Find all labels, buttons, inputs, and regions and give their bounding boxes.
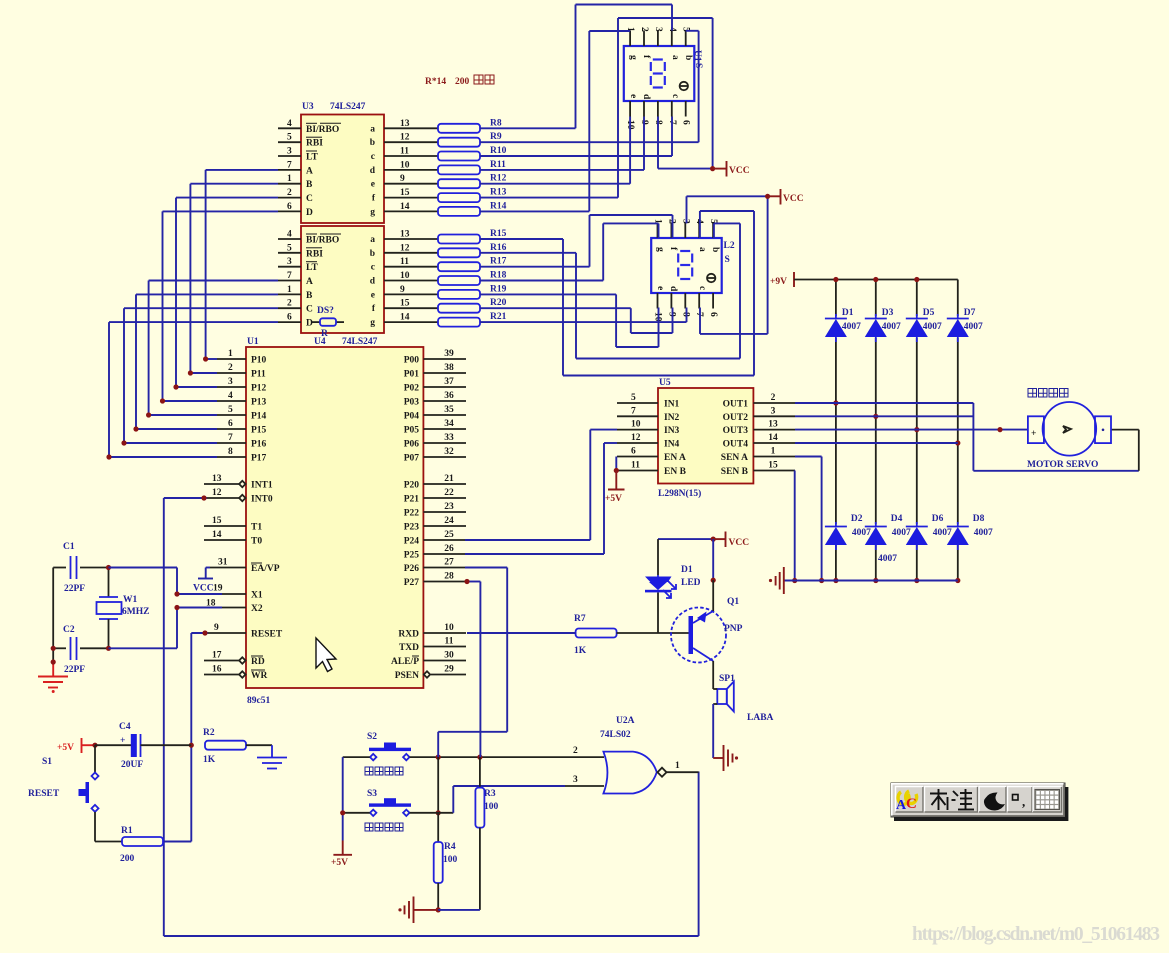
wire R11 to DS1 pin9 (480, 169, 644, 171)
svg-text:VCC: VCC (729, 166, 750, 176)
ground (speaker) (713, 757, 723, 759)
svg-text:10: 10 (400, 160, 410, 170)
U3 left pin A (7) (278, 169, 301, 171)
svg-text:c: c (371, 152, 375, 162)
U1 left pin WR (16) (204, 674, 239, 676)
DS2 top pin 2 (670, 223, 672, 239)
svg-text:10: 10 (631, 420, 641, 430)
svg-text:13: 13 (768, 420, 778, 430)
U1 right pin P24 (25) (423, 539, 466, 541)
svg-text:2: 2 (771, 393, 776, 403)
U4 left pin A (7) (278, 280, 301, 282)
U3 left pin C (2) (278, 197, 301, 199)
U4 left pin B (1) (278, 293, 301, 295)
svg-text:12: 12 (631, 433, 641, 443)
wire motor return loop (972, 403, 974, 471)
svg-text:14: 14 (400, 313, 410, 323)
svg-text:S2: S2 (367, 732, 377, 742)
svg-text:c: c (670, 94, 680, 98)
svg-text:TXD: TXD (399, 643, 419, 653)
wire VCC to LED top (658, 538, 713, 540)
svg-text:32: 32 (444, 447, 454, 457)
svg-text:IN4: IN4 (664, 440, 680, 450)
U3 right pin g (14) (384, 210, 438, 212)
svg-text:74LS247: 74LS247 (342, 337, 378, 347)
DS2 bottom pin 9 (670, 293, 672, 309)
diode D4 4007 (865, 526, 887, 528)
resistor R1 200 (95, 841, 122, 843)
svg-text:3: 3 (653, 27, 663, 32)
svg-text:29: 29 (444, 665, 454, 675)
svg-text:R19: R19 (490, 284, 507, 294)
svg-text:DS?: DS? (317, 306, 334, 316)
U1 left pin RESET (9) (208, 632, 246, 634)
diode D7 4007 (947, 318, 969, 320)
U5 right pin OUT3 (13) (753, 429, 795, 431)
U5 left pin IN3 (10) (617, 429, 658, 431)
svg-text:P25: P25 (404, 551, 420, 561)
svg-text:27: 27 (444, 558, 454, 568)
svg-text:5: 5 (631, 393, 636, 403)
svg-text:RESET: RESET (28, 789, 60, 799)
svg-text:e: e (628, 94, 638, 98)
svg-text:U1: U1 (692, 50, 702, 62)
svg-text:P01: P01 (404, 370, 420, 380)
svg-text:C: C (306, 194, 313, 204)
svg-text:Q1: Q1 (727, 597, 739, 607)
DS1 bottom pin 6 (685, 101, 687, 117)
svg-text:RESET: RESET (251, 630, 283, 640)
svg-text:13: 13 (400, 119, 410, 129)
svg-text:+5V: +5V (331, 858, 348, 868)
svg-text:16: 16 (212, 665, 222, 675)
svg-text:IN1: IN1 (664, 400, 680, 410)
svg-text:P26: P26 (404, 564, 420, 574)
DS1 top pin 4 (671, 31, 673, 47)
svg-text:22PF: 22PF (64, 665, 85, 675)
DS1 bottom pin 7 (671, 101, 673, 117)
svg-text:22: 22 (444, 488, 454, 498)
LED D1 (645, 577, 672, 591)
wire S2 to S3 column / R4 (437, 757, 439, 813)
wire DS1 pin8 to VCC rail (657, 117, 659, 169)
svg-text:2: 2 (639, 27, 649, 32)
svg-text:OUT4: OUT4 (723, 440, 749, 450)
svg-text:g: g (655, 247, 665, 252)
svg-text:11: 11 (631, 461, 640, 471)
svg-text:2: 2 (228, 363, 233, 373)
wire R15 to DS2 pin4 (480, 238, 563, 240)
U1 right pin ALE/P (30) (423, 660, 466, 662)
DS1 top pin 1 (629, 31, 631, 47)
wire R14 to DS1 pin1 (480, 210, 589, 212)
svg-text:P00: P00 (404, 356, 420, 366)
svg-text:C: C (906, 796, 917, 812)
svg-text:1K: 1K (203, 755, 216, 765)
svg-text:X1: X1 (251, 591, 263, 601)
wire +5V column to S2/S3 (343, 756, 370, 758)
svg-text:9: 9 (666, 312, 676, 317)
power +5V at U5 (615, 471, 617, 490)
diode D6 4007 (906, 526, 928, 528)
IME moon icon (984, 792, 1005, 810)
U1 left pin P11 (2) (217, 372, 246, 374)
svg-text:R21: R21 (490, 312, 507, 322)
wire R10 to DS1 pin7 (480, 155, 672, 157)
resistor R10 (438, 152, 480, 161)
U3 right pin d (10) (384, 169, 438, 171)
svg-text:15: 15 (212, 516, 222, 526)
svg-text:6: 6 (228, 419, 233, 429)
svg-text:C: C (306, 305, 313, 315)
svg-text:R20: R20 (490, 298, 507, 308)
svg-text:X2: X2 (251, 604, 263, 614)
capacitor C4 20UF (95, 744, 131, 746)
IME mode text (biao zhun) (930, 789, 974, 810)
svg-text:3: 3 (771, 406, 776, 416)
resistor R20 (438, 304, 480, 313)
wire R21 to DS2 pin8 (480, 321, 687, 323)
svg-text:11: 11 (445, 637, 454, 647)
crystal W1 6MHZ (108, 568, 110, 598)
svg-text:L298N(15): L298N(15) (658, 488, 701, 499)
svg-text:D: D (306, 208, 313, 218)
svg-text:34: 34 (444, 419, 454, 429)
IME punctuation icon (1013, 795, 1019, 801)
svg-text:1K: 1K (574, 646, 587, 656)
svg-text:9: 9 (400, 174, 405, 184)
svg-text:g: g (370, 207, 375, 217)
ground (R3/R4) (398, 908, 401, 911)
svg-text:SEN B: SEN B (721, 467, 749, 477)
svg-text:R2: R2 (203, 728, 215, 738)
svg-text:19: 19 (213, 584, 223, 594)
MCU U1 89c51 body (246, 347, 423, 688)
wire SEN B to ground rail (794, 470, 796, 472)
svg-text:P02: P02 (404, 384, 420, 394)
svg-text:7: 7 (287, 160, 292, 170)
U1 left pin INT0 (12) (207, 497, 239, 499)
svg-text:OUT3: OUT3 (723, 426, 749, 436)
IME keyboard icon (1035, 790, 1060, 810)
IME toolbar panel (891, 783, 1065, 817)
U1 left pin T0 (14) (204, 539, 246, 541)
svg-text:e: e (371, 290, 375, 300)
U5 right pin OUT4 (14) (753, 442, 795, 444)
svg-text:a: a (697, 247, 707, 252)
svg-text:8: 8 (228, 447, 233, 457)
DS2 top pin 3 (684, 223, 686, 239)
svg-text:1: 1 (287, 174, 292, 184)
svg-text:P21: P21 (404, 495, 420, 505)
svg-text:WR: WR (251, 671, 268, 681)
svg-text:R7: R7 (574, 614, 586, 624)
svg-text:VCC: VCC (783, 194, 804, 204)
svg-text:R15: R15 (490, 229, 507, 239)
svg-text:a: a (370, 235, 375, 245)
svg-text:OUT2: OUT2 (723, 413, 749, 423)
svg-text:100: 100 (443, 855, 458, 865)
power VCC (display1) (710, 166, 715, 171)
svg-text:D3: D3 (882, 308, 894, 318)
U1 right pin PSEN (29) (424, 671, 430, 677)
wire OUT2 (795, 415, 973, 417)
resistor R18 (438, 276, 480, 285)
resistor R17 (438, 262, 480, 271)
U1 right pin P22 (23) (423, 511, 466, 513)
svg-text:BI/RBO: BI/RBO (306, 125, 339, 135)
wire INT0 to bottom rail (NOR output net) (164, 497, 207, 499)
svg-text:b: b (370, 249, 375, 259)
svg-text:2: 2 (287, 188, 292, 198)
svg-text:4007: 4007 (923, 322, 942, 332)
svg-text:INT1: INT1 (251, 481, 273, 491)
svg-text:P03: P03 (404, 398, 420, 408)
U1 right pin P02 (37) (423, 386, 466, 388)
svg-text:U2A: U2A (616, 716, 635, 726)
svg-text:8: 8 (680, 312, 690, 317)
wire C1 row to X1 (109, 567, 178, 569)
svg-text:MOTOR SERVO: MOTOR SERVO (1027, 460, 1098, 470)
wire R1 right to reset node (164, 841, 191, 843)
IC U5 L298N body (658, 388, 753, 484)
svg-text:A: A (306, 277, 313, 287)
svg-text:g: g (628, 55, 638, 60)
U1 right pin P05 (34) (423, 428, 466, 430)
svg-text:L2: L2 (724, 241, 735, 251)
svg-text:LT: LT (306, 153, 318, 163)
svg-text:5: 5 (228, 405, 233, 415)
svg-text:,: , (1022, 794, 1025, 809)
U1 left pin P16 (7) (217, 442, 246, 444)
svg-text:4007: 4007 (842, 322, 861, 332)
svg-text:C4: C4 (119, 722, 131, 732)
svg-text:D2: D2 (851, 514, 863, 524)
svg-text:e: e (655, 286, 665, 290)
svg-text:5: 5 (287, 133, 292, 143)
svg-text:d: d (370, 166, 376, 176)
power +5V (S2/S3) (342, 841, 344, 855)
wire OUT4 (795, 442, 958, 444)
svg-text:36: 36 (444, 391, 454, 401)
svg-text:P27: P27 (404, 578, 420, 588)
wire U bus 8 to P17 (109, 321, 278, 323)
svg-text:25: 25 (444, 530, 454, 540)
svg-text:D5: D5 (923, 308, 935, 318)
U3 right pin b (12) (384, 141, 438, 143)
svg-text:1: 1 (675, 761, 680, 771)
transistor Q1 PNP (671, 608, 726, 663)
DS2 bottom pin 10 (657, 293, 659, 309)
svg-text:14: 14 (212, 530, 222, 540)
wire SEN A to ground rail (795, 456, 822, 458)
svg-text:S1: S1 (42, 757, 52, 767)
svg-text:P10: P10 (251, 356, 267, 366)
svg-text:15: 15 (400, 188, 410, 198)
wire RXD to R7 (467, 632, 576, 634)
wire R8 to DS1 pin4 (480, 127, 576, 129)
svg-text:R1: R1 (121, 826, 133, 836)
resistor R11 (438, 165, 480, 174)
wire diode column D5/D6 (916, 280, 918, 317)
svg-text:+: + (1031, 429, 1036, 439)
svg-text:15: 15 (768, 461, 778, 471)
svg-text:20UF: 20UF (121, 760, 143, 770)
wire U bus 4 to P13 (163, 210, 279, 212)
U3 right pin a (13) (384, 127, 438, 129)
svg-text:P13: P13 (251, 398, 267, 408)
svg-text:D1: D1 (842, 308, 854, 318)
svg-text:+5V: +5V (57, 743, 74, 753)
svg-text:13: 13 (212, 474, 222, 484)
svg-text:IN3: IN3 (664, 426, 680, 436)
U1 right pin P25 (26) (423, 553, 466, 555)
resistor R8 (438, 124, 480, 133)
svg-text:1: 1 (228, 349, 233, 359)
wire RESET to R2/C4 node (191, 632, 208, 634)
wire U bus 3 to P12 (176, 197, 278, 199)
svg-text:D6: D6 (932, 514, 944, 524)
svg-text:g: g (370, 318, 375, 328)
svg-text:D4: D4 (891, 514, 903, 524)
svg-text:17: 17 (212, 651, 222, 661)
svg-text:S: S (725, 255, 730, 265)
DS2 bottom pin 7 (698, 293, 700, 309)
svg-text:RD: RD (251, 657, 265, 667)
U1 right pin P26 (27) (423, 567, 466, 569)
U1 right pin P03 (36) (423, 400, 466, 402)
svg-text:12: 12 (400, 133, 410, 143)
U4 right pin e (9) (384, 293, 438, 295)
gate output wire (1) (667, 771, 699, 773)
U1 left pin P15 (6) (217, 428, 246, 430)
U5 left pin IN4 (12) (617, 442, 658, 444)
svg-text:T0: T0 (251, 537, 262, 547)
svg-text:R: R (321, 329, 328, 339)
svg-text:LABA: LABA (747, 713, 774, 723)
U1 left pin P14 (5) (217, 414, 246, 416)
svg-text:4007: 4007 (892, 528, 911, 538)
svg-text:LED: LED (681, 578, 701, 588)
U1 right pin P00 (39) (423, 358, 466, 360)
svg-text:b: b (683, 55, 693, 60)
svg-text:R9: R9 (490, 132, 502, 142)
U3 left pin D (6) (278, 210, 301, 212)
ground (diode rail) (784, 580, 958, 582)
U1 left pin P10 (1) (217, 358, 246, 360)
U3 left pin LT (3) (278, 155, 301, 157)
svg-text:R3: R3 (484, 789, 496, 799)
DS1 bottom pin 9 (643, 101, 645, 117)
U4 right pin a (13) (384, 238, 438, 240)
svg-text:+9V: +9V (770, 277, 787, 287)
svg-text:b: b (710, 247, 720, 252)
svg-text:3: 3 (287, 257, 292, 267)
svg-text:D: D (306, 319, 313, 329)
svg-text:RBI: RBI (306, 249, 323, 259)
svg-text:P11: P11 (251, 370, 266, 380)
IC U3 74LS247 body (301, 115, 384, 224)
svg-text:7: 7 (228, 433, 233, 443)
svg-text:EN A: EN A (664, 453, 686, 463)
svg-text:R17: R17 (490, 257, 507, 267)
svg-text:12: 12 (400, 243, 410, 253)
svg-text:R16: R16 (490, 243, 507, 253)
svg-text:a: a (370, 124, 375, 134)
svg-text:c: c (371, 263, 375, 273)
diode D5 4007 (906, 318, 928, 320)
U5 left pin EN B (11) (617, 470, 658, 472)
svg-text:6: 6 (708, 312, 718, 317)
U4 left pin LT (3) (278, 266, 301, 268)
U5 left pin IN1 (5) (617, 402, 658, 404)
U1 right pin P27 (28) (423, 581, 466, 583)
DS2 top pin 1 (657, 223, 659, 239)
svg-text:2: 2 (287, 299, 292, 309)
svg-text:P16: P16 (251, 440, 267, 450)
svg-text:200: 200 (120, 854, 135, 864)
wire P26 net (465, 567, 507, 569)
svg-text:T1: T1 (251, 523, 262, 533)
svg-text:3: 3 (680, 219, 690, 224)
motor terminal right (1095, 416, 1111, 443)
svg-text:4007: 4007 (974, 528, 993, 538)
U1 left pin P17 (8) (217, 456, 246, 458)
DS2 bottom pin 6 (712, 293, 714, 309)
U1 right pin P20 (21) (423, 483, 466, 485)
motor labels (1028, 389, 1037, 398)
resistor R21 (438, 318, 480, 327)
IC U4 74LS247 body (301, 226, 384, 333)
DS1 bottom pin 8 (657, 101, 659, 117)
U3 right pin c (11) (384, 155, 438, 157)
svg-text:R10: R10 (490, 146, 507, 156)
wire U bus 6 to P15 (136, 293, 278, 295)
U4 right pin f (15) (384, 307, 438, 309)
wire R12 to DS1 pin10 (480, 183, 630, 185)
U1 right pin P07 (32) (423, 456, 466, 458)
diode D3 4007 (865, 318, 887, 320)
svg-text:1: 1 (771, 447, 776, 457)
wire OUT3 to motor (795, 429, 1028, 431)
svg-text:a: a (670, 55, 680, 60)
svg-text:14: 14 (768, 433, 778, 443)
U1 right pin TXD (11) (423, 646, 466, 648)
svg-text:10: 10 (653, 312, 663, 322)
wire R13 to VCC node (480, 197, 618, 199)
svg-text:c: c (697, 286, 707, 290)
U4 left pin RBI (5) (278, 252, 301, 254)
svg-text:+5V: +5V (605, 494, 622, 504)
resistor R13 (438, 193, 480, 202)
svg-text:4: 4 (287, 230, 292, 240)
svg-text:10: 10 (444, 623, 454, 633)
resistor R14 (438, 207, 480, 216)
svg-text:R12: R12 (490, 174, 507, 184)
U4 right pin b (12) (384, 252, 438, 254)
capacitor C1 22PF (53, 567, 66, 569)
svg-text:EN B: EN B (664, 467, 687, 477)
svg-text:37: 37 (444, 377, 454, 387)
svg-text:6: 6 (287, 313, 292, 323)
svg-text:B: B (306, 291, 313, 301)
wire U bus 2 to P11 (190, 183, 278, 185)
svg-text:BI/RBO: BI/RBO (306, 236, 339, 246)
svg-text:13: 13 (400, 230, 410, 240)
U3 left pin BI/RBO (4) (278, 127, 301, 129)
IME logo icon (898, 791, 917, 804)
gate input 3 stub (565, 785, 604, 787)
